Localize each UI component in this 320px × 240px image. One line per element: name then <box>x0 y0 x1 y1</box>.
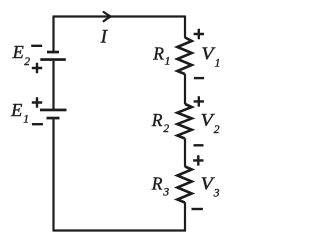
svg-text:2: 2 <box>163 123 169 135</box>
battery E2 short plate (negative) <box>47 51 59 54</box>
svg-text:2: 2 <box>214 124 220 136</box>
wire left lower <box>52 119 54 230</box>
wire right bottom <box>184 202 186 231</box>
svg-text:R: R <box>151 110 163 130</box>
resistor R2 <box>177 104 192 139</box>
current arrow <box>104 12 111 21</box>
svg-text:3: 3 <box>213 187 220 199</box>
wire right top <box>184 16 186 38</box>
wire bottom <box>53 229 187 231</box>
label R1 <box>152 44 170 68</box>
label R2 <box>151 110 170 135</box>
svg-text:E: E <box>10 100 23 120</box>
battery E1 long plate (positive) <box>40 109 67 112</box>
V3 minus sign <box>192 208 203 210</box>
label V1 <box>201 44 220 70</box>
V2 plus sign <box>194 96 204 106</box>
V1 plus sign <box>194 29 204 39</box>
svg-text:E: E <box>12 42 25 62</box>
E1 plus sign <box>32 97 42 107</box>
E2 plus sign <box>32 63 42 73</box>
wire left middle <box>52 61 54 109</box>
wire top <box>54 15 186 17</box>
battery E2 long plate (positive) <box>40 58 66 61</box>
svg-text:3: 3 <box>162 186 169 198</box>
E1 minus sign <box>32 123 43 125</box>
svg-text:R: R <box>152 44 164 64</box>
svg-text:I: I <box>100 27 109 48</box>
label E1 <box>10 100 29 126</box>
battery E1 short plate (negative) <box>47 117 60 120</box>
label V3 <box>201 173 220 199</box>
wire right R2-R3 <box>184 138 186 167</box>
resistor R3 <box>177 167 192 203</box>
label R3 <box>151 173 170 198</box>
V3 plus sign <box>193 155 203 165</box>
V2 minus sign <box>194 144 204 146</box>
label E2 <box>12 42 31 68</box>
E2 minus sign <box>31 45 42 47</box>
wire right R1-R2 <box>184 74 186 104</box>
label V2 <box>201 110 220 136</box>
svg-text:1: 1 <box>215 58 221 70</box>
svg-text:1: 1 <box>165 56 171 68</box>
svg-text:2: 2 <box>24 56 30 68</box>
label I <box>100 27 109 48</box>
svg-text:1: 1 <box>23 114 29 126</box>
resistor R1 <box>177 38 192 75</box>
V1 minus sign <box>194 77 204 79</box>
wire left upper <box>52 16 54 52</box>
svg-text:R: R <box>151 173 163 193</box>
